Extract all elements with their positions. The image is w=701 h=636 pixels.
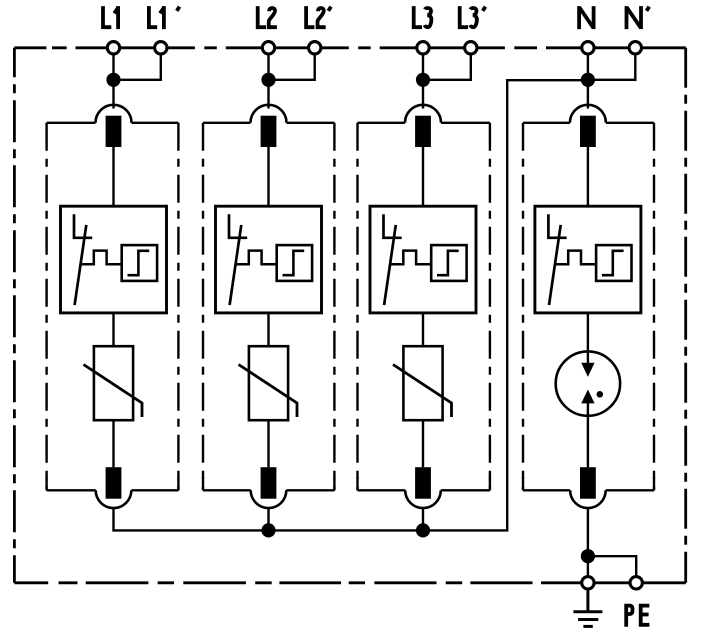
- varistor RV1: [84, 346, 143, 420]
- terminal L3: [417, 42, 429, 54]
- terminal L1: [107, 42, 119, 54]
- wire: dashed module box L1: [47, 123, 179, 491]
- wire: vertical wires of channel L3: [423, 48, 471, 531]
- label L3´: [460, 6, 486, 27]
- terminal L2´: [309, 42, 321, 54]
- fuse: thermal disconnect top F2: [251, 105, 287, 147]
- ground: earth symbol: [573, 590, 602, 627]
- terminal L3´: [465, 42, 477, 54]
- label L1´: [149, 6, 180, 29]
- terminal L2: [262, 42, 274, 54]
- label L1: [103, 6, 118, 29]
- disconnector with status indication U4: [535, 206, 641, 313]
- node: junction N: [581, 73, 595, 87]
- node: junction above PE terminal: [581, 549, 595, 563]
- node: junction L1: [106, 73, 120, 87]
- terminal PE´: [630, 577, 642, 589]
- fuse: thermal disconnect bottom F8: [570, 467, 606, 508]
- fuse: thermal disconnect top F3: [405, 105, 441, 147]
- fuse: thermal disconnect bottom F5: [96, 467, 132, 508]
- spark gap (gas discharge tube) N-PE F4: [556, 351, 620, 415]
- terminal L1´: [155, 42, 167, 54]
- fuse: thermal disconnect top F4: [570, 105, 606, 147]
- label L2: [258, 6, 277, 27]
- terminal N: [582, 42, 594, 54]
- label L3: [414, 6, 432, 27]
- label L2´: [306, 6, 331, 27]
- fuse: thermal disconnect bottom F7: [405, 467, 441, 508]
- node: bus junction under L3: [416, 523, 430, 537]
- wire: dashed module box N: [523, 123, 654, 491]
- node: junction L3: [416, 73, 430, 87]
- wire: dashed module box L2: [203, 123, 334, 491]
- label PE: [626, 606, 649, 627]
- node: junction L2: [261, 73, 275, 87]
- varistor RV3: [393, 346, 452, 420]
- terminal N´: [629, 42, 641, 54]
- node: bus junction under L2: [261, 523, 275, 537]
- wire: PE collection bus from varistor bottoms: [114, 80, 588, 530]
- label N: [579, 6, 594, 29]
- wire: vertical wires of channel L1: [114, 48, 161, 467]
- fuse: thermal disconnect bottom F6: [251, 467, 287, 508]
- disconnector with status indication U1: [61, 206, 167, 313]
- wire: solid segments of top line at terminals: [76, 48, 686, 583]
- disconnector with status indication U2: [216, 206, 322, 313]
- terminal PE (earth side): [582, 577, 594, 589]
- fuse: thermal disconnect top F1: [96, 105, 132, 147]
- label N´: [627, 6, 650, 29]
- wire: dashed module box L3: [358, 123, 490, 491]
- varistor RV2: [239, 346, 298, 420]
- wire: vertical wires of channel N: [588, 48, 636, 583]
- wire: vertical wires of channel L2: [269, 48, 315, 531]
- disconnector with status indication U3: [370, 206, 476, 313]
